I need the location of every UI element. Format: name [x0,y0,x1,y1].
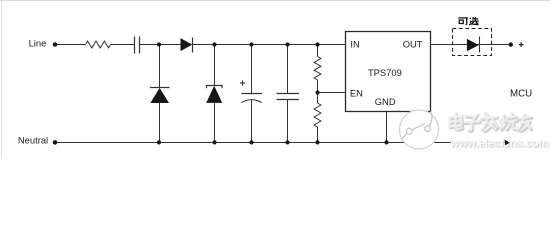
svg-text:EN: EN [350,87,363,98]
svg-text:OUT: OUT [403,39,423,50]
svg-text:MCU: MCU [510,88,532,99]
svg-text:TPS709: TPS709 [368,67,402,78]
svg-text:Neutral: Neutral [18,135,48,146]
svg-text:IN: IN [350,39,359,50]
svg-text:www.elecfans.com: www.elecfans.com [450,138,549,150]
svg-text:GND: GND [375,96,396,107]
svg-text:Line: Line [29,38,47,49]
